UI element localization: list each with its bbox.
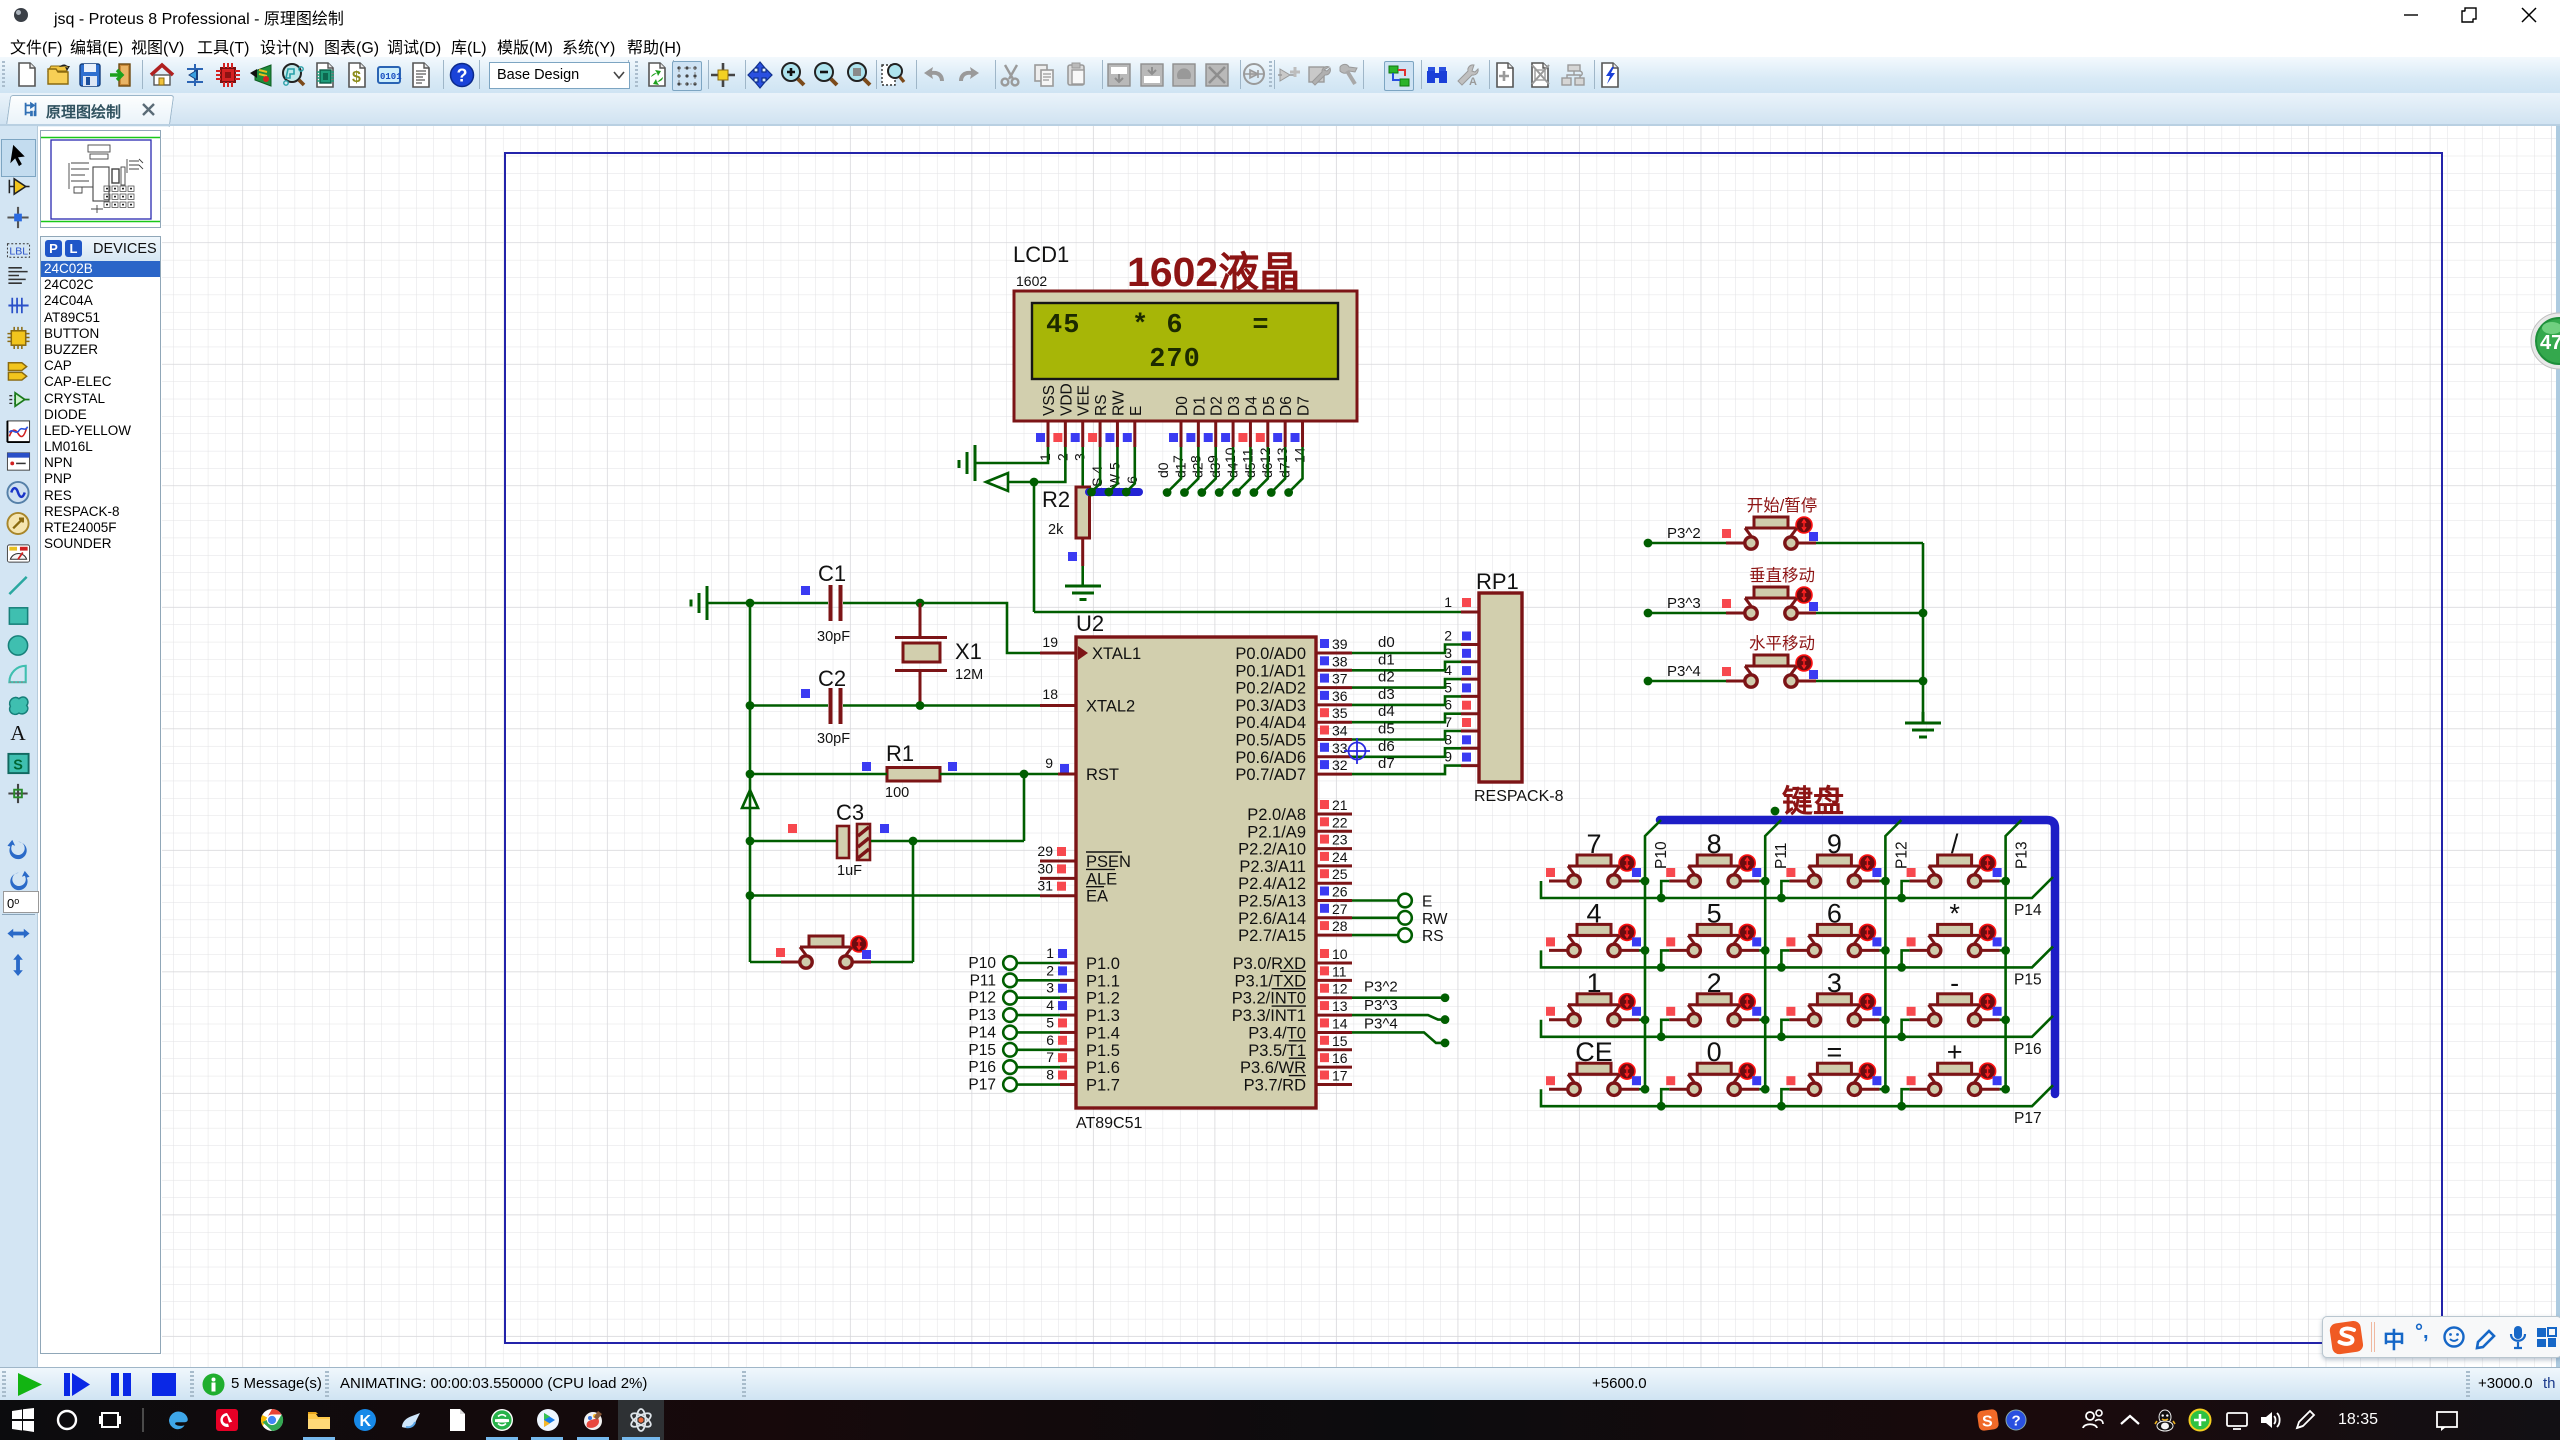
wire VEE pin3 to R2 [1081,447,1084,487]
wire button to column [1759,1088,1765,1091]
svg-text:P12: P12 [968,990,996,1007]
svg-text:P0.4/AD4: P0.4/AD4 [1235,714,1306,732]
terminal P17 and U2 pin 8 P1.7 [968,1067,1120,1095]
U2 pin 18 XTAL2 [1040,686,1135,716]
wire button to column [2000,949,2006,952]
svg-text:9: 9 [1045,755,1053,771]
U2 pin 31 EA [1037,878,1108,906]
U2 pin 19 XTAL1 [1040,634,1141,663]
svg-text:16: 16 [1332,1050,1348,1066]
keypad button CE [1546,1037,1641,1095]
keypad button 2 [1666,968,1761,1026]
svg-text:D5: D5 [1261,396,1278,416]
keypad button 1 [1546,968,1641,1026]
svg-text:3: 3 [1046,980,1054,996]
terminal RS [1352,928,1444,945]
svg-text:P3^2: P3^2 [1667,525,1701,542]
svg-text:$: $ [352,69,361,86]
wire button left leg to row [1781,950,1789,967]
wire button left leg to row [1661,1089,1669,1106]
svg-text:30pF: 30pF [817,731,850,747]
wire button to column [1759,949,1765,952]
wire button to common bus [1816,542,1923,545]
svg-text:垂直移动: 垂直移动 [1749,566,1815,585]
svg-text:P3.7/RD: P3.7/RD [1244,1077,1306,1095]
svg-text:VSS: VSS [1041,385,1058,416]
svg-text:45 * 6 =: 45 * 6 = [1046,311,1270,341]
svg-text:RP1: RP1 [1476,569,1519,594]
svg-text:EA: EA [1086,888,1108,906]
left side [0,126,38,1367]
U2 pin 17 P3.7/RD [1244,1068,1352,1095]
svg-text:21: 21 [1332,797,1348,813]
svg-text:1: 1 [1444,594,1452,610]
terminal P10 and U2 pin 1 P1.0 [968,945,1120,973]
svg-text:34: 34 [1332,723,1348,739]
svg-text:P1.2: P1.2 [1086,990,1120,1008]
svg-text:RW: RW [1110,390,1127,416]
wire backbone to reset button [750,961,781,964]
wires RS RW E pins 4-6 with node dots [1091,447,1100,492]
keypad column wire P13 [2006,820,2031,1089]
RP1 pin 6 [1444,697,1479,714]
wire button left leg to row [1661,950,1669,967]
wire button to column [1879,949,1885,952]
svg-text:VEE: VEE [1076,385,1093,416]
svg-text:12: 12 [1332,981,1348,997]
svg-text:26: 26 [1332,884,1348,900]
keypad button * [1907,898,2002,956]
svg-text:30: 30 [1037,860,1053,876]
wire d1 net [1352,662,1461,671]
U2 pin 33 P0.6/AD6 [1235,740,1352,767]
wire R2 to ground [1081,566,1084,586]
svg-text:键盘: 键盘 [1782,784,1844,819]
terminal E [1352,894,1432,911]
svg-text:39: 39 [1332,636,1348,652]
svg-text:30pF: 30pF [817,629,850,645]
wire button left leg to row [1902,881,1910,898]
svg-text:0101: 0101 [380,72,402,82]
svg-text:P0.0/AD0: P0.0/AD0 [1235,645,1306,663]
svg-text:2k: 2k [1048,522,1064,538]
resistor R1 100 [862,741,957,801]
svg-text:D7: D7 [1296,396,1313,416]
svg-text:P2.0/A8: P2.0/A8 [1247,806,1306,824]
wire d3 net [1352,696,1461,705]
wire backbone to C3, node [746,837,755,846]
svg-text:P11: P11 [1773,843,1790,869]
wire button to column [1639,880,1645,883]
microcontroller U2 AT89C51 [1076,611,1316,1132]
svg-text:AT89C51: AT89C51 [1076,1115,1143,1132]
RP1 pin 1 [1444,594,1479,612]
svg-text:RESPACK-8: RESPACK-8 [1474,788,1564,805]
svg-text:VDD: VDD [1058,383,1075,416]
ground symbol at LCD VSS [959,445,975,481]
U2 pin 21 P2.0/A8 [1247,797,1352,824]
svg-text:d0: d0 [1155,462,1171,478]
wire net P3^3 from U2 pin 13 [1352,1015,1445,1020]
U2 pin 36 P0.3/AD3 [1235,688,1352,715]
svg-text:d5: d5 [1378,721,1395,738]
keypad column wire P12 [1885,820,1910,1089]
capacitor C3 1uF electrolytic [788,800,889,879]
selected wire (blue) at RS/RW/E [1089,488,1139,496]
svg-text:P17: P17 [968,1077,996,1094]
RP1 pin 5 [1444,679,1479,696]
wire button left leg to row [1902,1020,1910,1037]
terminal P14 and U2 pin 5 P1.4 [968,1014,1120,1042]
svg-text:6: 6 [1046,1032,1054,1048]
wire button to column [1639,1018,1645,1021]
U2 pin 14 P3.4/T0 [1248,1015,1352,1042]
svg-text:P2.5/A13: P2.5/A13 [1238,893,1306,911]
resistor pack RP1 RESPACK-8 [1474,569,1564,805]
U2 pin 30 ALE [1037,860,1117,888]
svg-text:P3^4: P3^4 [1667,663,1701,680]
reset push button [776,936,871,968]
svg-text:?: ? [457,66,468,86]
svg-text:d6: d6 [1378,738,1395,755]
svg-text:12: 12 [1257,447,1273,463]
svg-text:P1.1: P1.1 [1086,972,1120,990]
svg-text:C1: C1 [818,561,846,586]
svg-text:P2.3/A11: P2.3/A11 [1239,858,1306,876]
svg-text:D3: D3 [1226,396,1243,416]
svg-text:11: 11 [1332,963,1347,979]
svg-text:XTAL1: XTAL1 [1092,645,1141,663]
keypad button 0 [1666,1037,1761,1095]
push button 开始/暂停 [1722,496,1818,549]
wire d5 net [1352,731,1461,740]
svg-text:水平移动: 水平移动 [1749,634,1815,653]
wire ground to backbone node [707,602,750,605]
U2 pin 37 P0.2/AD2 [1235,671,1352,698]
svg-text:P15: P15 [968,1042,996,1059]
svg-text:2: 2 [1046,962,1054,978]
wire backbone to C1 [750,602,828,605]
RP1 pin 4 [1444,662,1479,679]
svg-text:E: E [1422,894,1432,911]
svg-text:35: 35 [1332,705,1348,721]
svg-text:P11: P11 [970,972,996,989]
svg-text:X1: X1 [955,639,982,664]
wire button to column [1879,1018,1885,1021]
svg-text:47: 47 [2540,332,2560,354]
svg-text:S: S [1982,1414,1993,1431]
svg-text:29: 29 [1037,843,1053,859]
U2 pin 29 PSEN [1037,843,1131,871]
U2 pin 35 P0.4/AD4 [1235,705,1352,732]
svg-text:10: 10 [1222,447,1238,463]
keypad button 8 [1666,829,1761,887]
svg-text:24: 24 [1332,849,1348,865]
svg-text:P16: P16 [2014,1041,2042,1058]
svg-text:P14: P14 [968,1024,996,1041]
wire button to column [1639,1088,1645,1091]
svg-text:D0: D0 [1174,396,1191,416]
svg-text:d4: d4 [1378,703,1395,720]
U2 pin 38 P0.1/AD1 [1235,653,1352,680]
wire button left leg to row [1661,881,1669,898]
U2 pin 39 P0.0/AD0 [1235,636,1352,663]
U2 pin 26 P2.5/A13 [1238,884,1352,911]
keypad button 9 [1786,829,1881,887]
svg-text:P1.6: P1.6 [1086,1059,1120,1077]
svg-text:32: 32 [1332,757,1348,773]
U2 pin 32 P0.7/AD7 [1235,757,1352,784]
push button 水平移动 [1722,634,1818,687]
svg-text:8: 8 [1046,1067,1054,1083]
wire junction down to reset button [912,841,915,962]
capacitor C2 30pF [801,666,850,747]
svg-text:RST: RST [1086,766,1119,784]
svg-text:P0.5/AD5: P0.5/AD5 [1235,732,1306,750]
wire button left leg to row [1781,1020,1789,1037]
svg-text:P3^4: P3^4 [1364,1015,1398,1032]
svg-text:P2.1/A9: P2.1/A9 [1247,823,1306,841]
svg-text:RS: RS [1093,394,1110,416]
wire d7 net [1352,766,1461,775]
svg-text:d0: d0 [1378,634,1395,651]
svg-text:P0.6/AD6: P0.6/AD6 [1235,749,1306,767]
svg-text:P0.7/AD7: P0.7/AD7 [1235,766,1306,784]
U2 pin 27 P2.6/A14 [1238,901,1352,928]
svg-text:P3.1/TXD: P3.1/TXD [1234,972,1306,990]
wire button left leg to row [1781,1089,1789,1106]
U2 pin 16 P3.6/WR [1240,1050,1352,1077]
svg-text:25: 25 [1332,866,1348,882]
terminal RW [1352,911,1448,928]
keypad column wire P10 [1645,820,1670,1089]
svg-text:27: 27 [1332,901,1348,917]
wire C2 to XTAL2 [843,704,1040,707]
svg-text:7: 7 [1170,455,1186,463]
wire net P3^3 to button [1644,609,1653,618]
svg-text:4: 4 [1046,997,1054,1013]
svg-text:A: A [10,721,26,745]
wire button to column [2000,1018,2006,1021]
power terminal arrow on backbone [742,790,758,808]
svg-text:d7: d7 [1378,755,1395,772]
wire button left leg to row [1902,1089,1910,1106]
svg-text:18: 18 [1042,686,1058,702]
keypad button 3 [1786,968,1881,1026]
svg-text:P1.3: P1.3 [1086,1007,1120,1025]
svg-text:S: S [13,757,23,773]
LCD1 pin stubs 1-14 [1036,421,1308,497]
svg-text:7: 7 [1046,1049,1054,1065]
U2 pin 22 P2.1/A9 [1247,814,1352,841]
wire d2 net [1352,679,1461,688]
terminal P16 and U2 pin 7 P1.6 [968,1049,1120,1077]
svg-text:RW: RW [1422,911,1448,928]
svg-text:100: 100 [885,785,909,801]
svg-text:A: A [1469,76,1477,88]
wire VSS pin1 to ground [975,447,1048,463]
svg-text:13: 13 [1332,998,1348,1014]
svg-text:P3.4/T0: P3.4/T0 [1248,1024,1306,1042]
svg-text:LCD1: LCD1 [1013,242,1069,267]
svg-text:10: 10 [1332,946,1348,962]
svg-text:9: 9 [1205,455,1221,463]
keypad row wire P16 [1541,1016,2053,1058]
wire button to column [2000,880,2006,883]
keypad row wire P15 [1541,946,2053,988]
svg-text:P2.7/A15: P2.7/A15 [1238,927,1306,945]
wire button left leg to row [1781,881,1789,898]
svg-text:14: 14 [1332,1015,1348,1031]
svg-text:1602: 1602 [1016,273,1047,289]
svg-text:P0.2/AD2: P0.2/AD2 [1235,680,1306,698]
svg-text:?: ? [2012,1413,2021,1430]
svg-text:P3^2: P3^2 [1364,979,1398,996]
wire d0 net [1352,645,1461,654]
wire C3 to RST node, junction at 913 [871,840,1024,843]
U2 pin 13 P3.3/INT1 [1232,998,1352,1025]
svg-text:37: 37 [1332,671,1348,687]
keypad button + [1907,1037,2002,1095]
svg-text:11: 11 [1239,448,1255,463]
RP1 pin 3 [1444,645,1479,662]
wire net P3^4 to button [1644,677,1653,686]
sheet border [505,153,2442,1343]
svg-text:P3.2/INT0: P3.2/INT0 [1232,990,1306,1008]
svg-text:LBL: LBL [9,245,28,257]
svg-text:D6: D6 [1278,396,1295,416]
wire d6 net [1352,748,1461,757]
svg-text:P12: P12 [1893,841,1910,869]
terminal P11 and U2 pin 2 P1.1 [970,962,1120,990]
svg-text:3: 3 [1072,453,1088,461]
svg-text:1: 1 [1046,945,1054,961]
keypad row wire P17 [1541,1085,2053,1127]
svg-text:33: 33 [1332,740,1348,756]
svg-text:d2: d2 [1378,669,1395,686]
cursor crosshair [1344,738,1370,764]
svg-text:P3.5/T1: P3.5/T1 [1248,1042,1306,1060]
LCD display LCD1 (1602) [1013,242,1357,421]
bus wire (selected, blue) [1660,820,2055,1094]
U2 pin 9 RST [1045,755,1119,784]
wire button to column [2000,1088,2006,1091]
keypad column wire P11 [1765,820,1790,1089]
keypad row wire P14 [1541,877,2053,919]
wire VDD node down to RP1 pin1 row [1033,482,1036,612]
keypad button / [1907,829,2002,887]
wire d4 net [1352,714,1461,723]
resistor R2 2k [1042,487,1090,566]
svg-text:31: 31 [1037,878,1053,894]
keypad button = [1786,1037,1881,1095]
svg-text:P10: P10 [968,955,996,972]
wire button to common bus [1816,612,1923,615]
wire net P3^2 to button [1644,539,1653,548]
svg-text:17: 17 [1332,1068,1348,1084]
U2 pin 24 P2.3/A11 [1239,849,1352,876]
ground symbol left of C1 [691,586,707,620]
svg-text:RS: RS [1422,928,1444,945]
svg-text:D1: D1 [1191,396,1208,416]
svg-text:1uF: 1uF [837,863,862,879]
wire backbone to C2, node [746,701,755,710]
wire net P3^2 from U2 pin 12 [1352,996,1445,999]
svg-text:5: 5 [1046,1014,1054,1030]
wire button left leg to row [1661,1020,1669,1037]
wire R1 to RST with node [940,773,1058,776]
svg-text:1602液晶: 1602液晶 [1127,249,1300,295]
U2 pin 11 P3.1/TXD [1234,963,1352,990]
svg-text:P0.1/AD1: P0.1/AD1 [1235,662,1306,680]
keypad button 4 [1546,898,1641,956]
wire crystal node to XTAL1 [920,603,1040,653]
vertical common wire of control buttons [1922,543,1925,712]
wire net P3^4 from U2 pin 14 [1352,1032,1445,1043]
wire VDD pin2 to power terminal, node at (1034,482) [1008,447,1065,482]
svg-text:P1.5: P1.5 [1086,1042,1120,1060]
svg-text:36: 36 [1332,688,1348,704]
svg-text:U2: U2 [1076,611,1104,636]
wire power node to RP1 pin 1 [1034,611,1461,614]
U2 pin 28 P2.7/A15 [1238,918,1352,945]
keypad button 5 [1666,898,1761,956]
svg-text:P3^3: P3^3 [1364,997,1398,1014]
svg-text:PSEN: PSEN [1086,853,1131,871]
wire button left leg to row [1902,950,1910,967]
svg-text:C2: C2 [818,666,846,691]
svg-text:d1: d1 [1378,651,1395,668]
U2 pin 25 P2.4/A12 [1238,866,1352,893]
svg-text:14: 14 [1292,447,1308,463]
svg-text:P17: P17 [2014,1110,2042,1127]
svg-text:P3.0/RXD: P3.0/RXD [1233,955,1306,973]
wire button to column [1759,880,1765,883]
svg-text:R1: R1 [886,741,914,766]
keypad button 7 [1546,829,1641,887]
svg-text:P3.6/WR: P3.6/WR [1240,1059,1306,1077]
vertical backbone wire [749,603,752,962]
svg-text:2: 2 [1054,453,1070,461]
wire backbone to EA [746,891,755,900]
wire reset button to junction [871,961,913,964]
svg-text:19: 19 [1042,634,1058,650]
crystal X1 12M [895,603,983,705]
RP1 pin 8 [1444,731,1479,748]
keypad button - [1907,968,2002,1026]
svg-text:D4: D4 [1243,396,1260,416]
floating green ball [2528,310,2560,372]
wire backbone to R1 [746,770,755,779]
RP1 pin 7 [1444,714,1479,731]
svg-text:P1.4: P1.4 [1086,1024,1120,1042]
svg-text:P3.3/INT1: P3.3/INT1 [1232,1007,1306,1025]
svg-text:P14: P14 [2014,902,2042,919]
svg-text:D2: D2 [1209,396,1226,416]
wire button to column [1759,1018,1765,1021]
ground symbol below R2 [1065,586,1101,600]
svg-text:2: 2 [1444,628,1452,644]
wire button to column [1639,949,1645,952]
svg-text:270: 270 [1149,345,1201,375]
svg-text:P13: P13 [2014,841,2031,869]
terminal P12 and U2 pin 3 P1.2 [968,980,1120,1008]
svg-text:P10: P10 [1653,841,1670,869]
svg-text:28: 28 [1332,918,1348,934]
U2 pin 10 P3.0/RXD [1233,946,1352,973]
svg-text:12M: 12M [955,667,983,683]
U2 pin 15 P3.5/T1 [1248,1033,1352,1060]
